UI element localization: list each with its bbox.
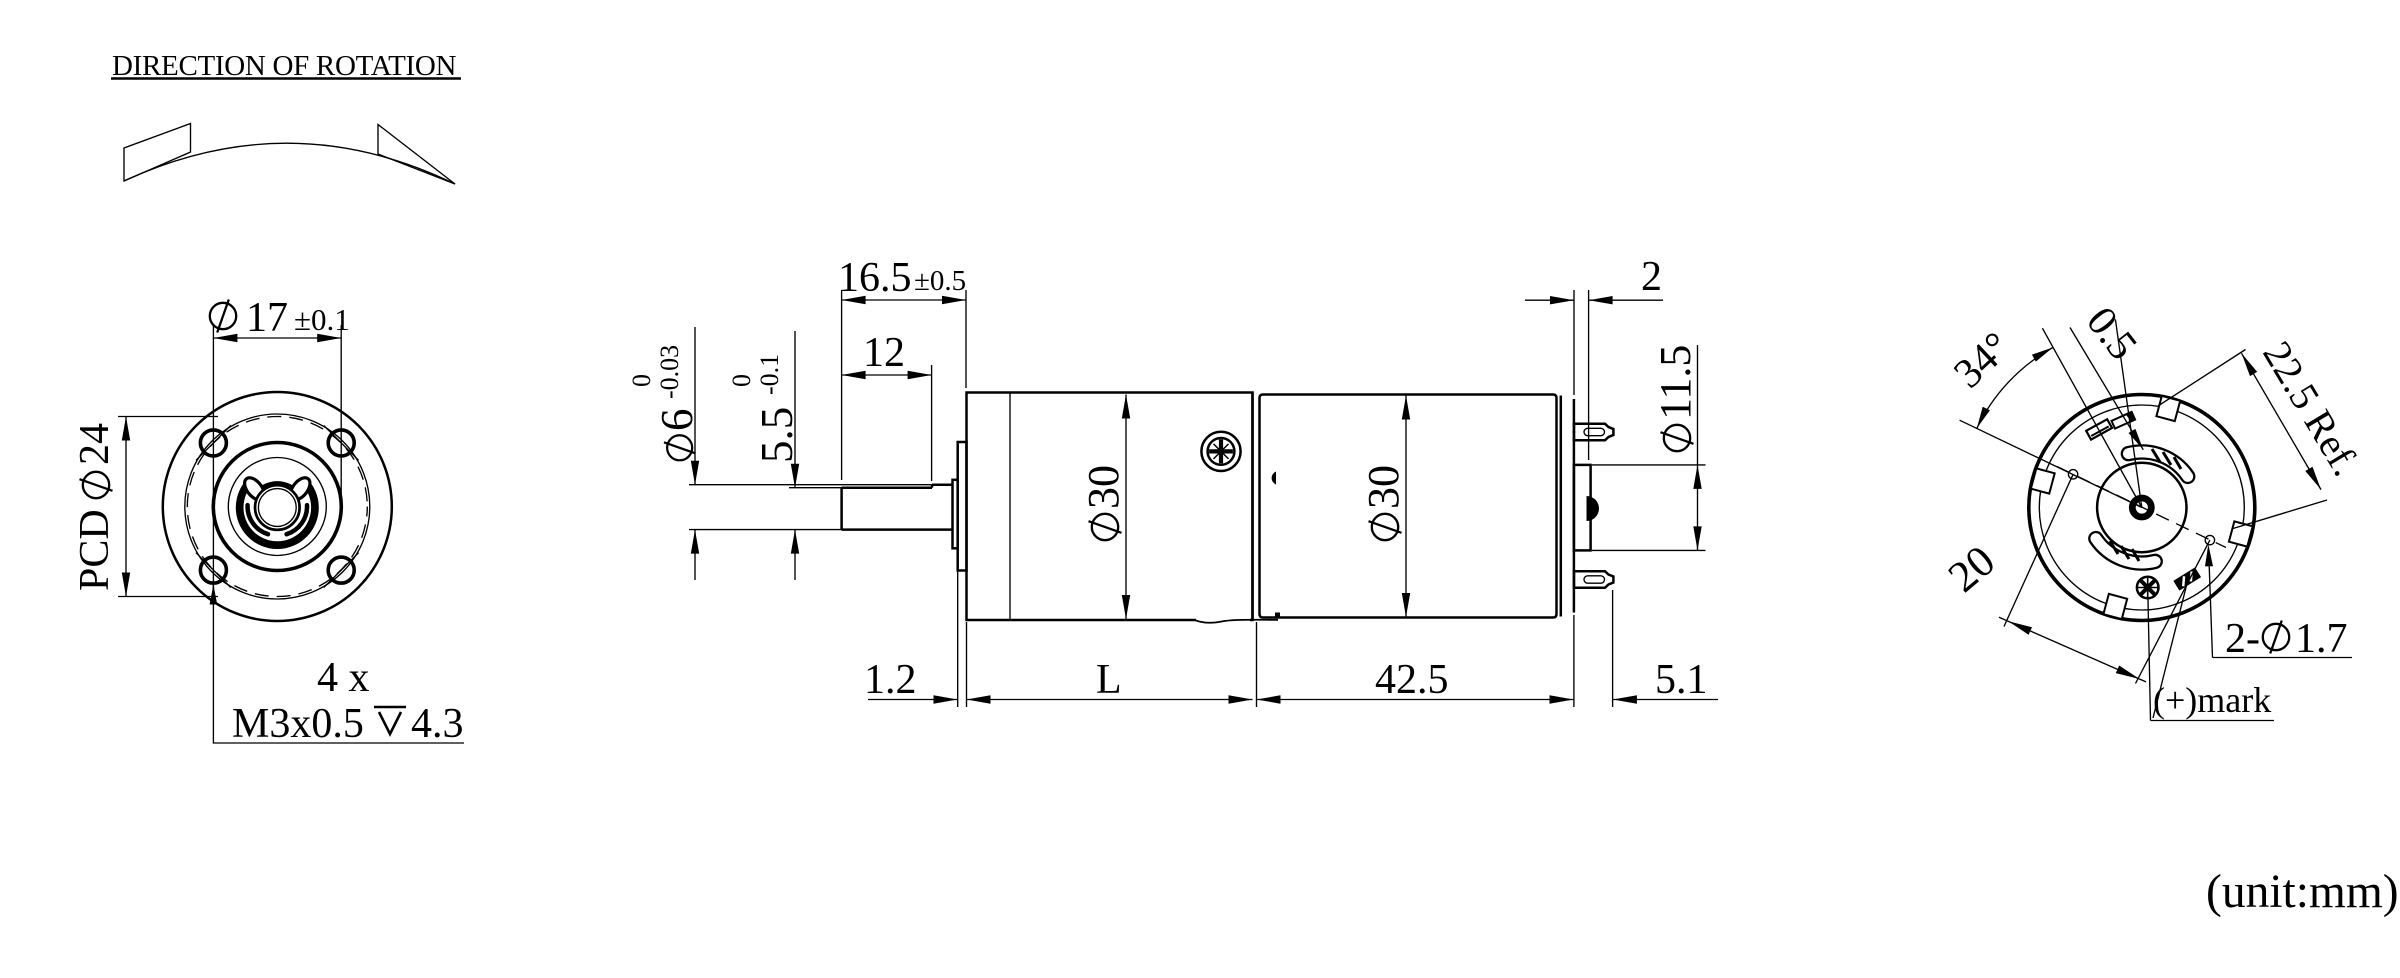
dim L xyxy=(967,699,1253,701)
text 34 xyxy=(1945,324,2019,398)
dim d11.5 xyxy=(1592,464,1706,466)
bolt hole top-right xyxy=(328,430,354,456)
shaft bottom edge xyxy=(689,529,842,531)
carrier ring xyxy=(236,477,319,549)
dim 20 line xyxy=(1999,617,2146,682)
shaft full-dia extension/top edge xyxy=(689,484,932,486)
leader 0.5 xyxy=(2070,328,2143,450)
grease screw outer xyxy=(1201,432,1240,471)
svg-text:16.5: 16.5 xyxy=(838,255,912,301)
svg-text:DIRECTION OF ROTATION: DIRECTION OF ROTATION xyxy=(112,50,457,82)
svg-text:4.3: 4.3 xyxy=(411,701,464,747)
dim 1.2 xyxy=(868,699,958,701)
svg-text:M3x0.5: M3x0.5 xyxy=(232,701,364,747)
dim 34 arc xyxy=(1977,347,2053,428)
text 0.5 xyxy=(2077,299,2146,369)
bolt hole bottom-right xyxy=(328,557,354,583)
svg-text:1.7: 1.7 xyxy=(2295,616,2348,662)
motor inner circle xyxy=(2039,405,2244,610)
svg-text:5.1: 5.1 xyxy=(1655,657,1708,703)
rim tab left xyxy=(2031,468,2055,493)
gearbox bottom break squiggle xyxy=(1196,618,1250,622)
terminal lower xyxy=(1574,571,1613,588)
motor can xyxy=(1260,395,1557,618)
svg-text:L: L xyxy=(1096,657,1122,703)
shaft circle inner xyxy=(258,489,296,527)
hole 1.7 left xyxy=(2068,470,2077,479)
rear shaft end bump xyxy=(1587,496,1600,521)
grease screw inner xyxy=(1208,438,1235,465)
dim 5.1 xyxy=(1613,699,1718,701)
svg-text:PCD: PCD xyxy=(72,509,118,591)
dim PCD text xyxy=(72,423,118,591)
svg-text:-0.03: -0.03 xyxy=(655,345,684,399)
bolt hole top-left xyxy=(200,430,226,456)
brush slot upper-left A xyxy=(2086,419,2112,439)
dim d30 gearbox xyxy=(1125,395,1127,620)
gearbox/motor joint line xyxy=(1251,393,1254,621)
spring arc left xyxy=(248,505,268,534)
svg-text:11.5: 11.5 xyxy=(1651,345,1700,420)
dim 2 xyxy=(1573,290,1575,395)
bottom dims extension lines xyxy=(957,552,959,707)
dim d6 xyxy=(694,327,696,485)
ear right xyxy=(287,474,314,503)
dim 34 rays xyxy=(2115,319,2141,507)
svg-text:(unit:mm): (unit:mm) xyxy=(2206,866,2399,918)
gearbox front ring line xyxy=(1009,393,1011,621)
vent slot upper hatch xyxy=(2152,449,2181,469)
svg-text:30: 30 xyxy=(1079,465,1128,509)
svg-text:2: 2 xyxy=(1641,254,1662,300)
svg-text:2-: 2- xyxy=(2225,616,2260,662)
svg-text:12: 12 xyxy=(863,330,905,376)
flange inner circle xyxy=(185,414,370,599)
svg-text:30: 30 xyxy=(1359,465,1408,509)
vent slot lower hatch xyxy=(2110,541,2139,561)
brush slot upper B xyxy=(2112,412,2136,429)
dim PCD line xyxy=(125,417,127,597)
rim tab bottom xyxy=(2103,594,2127,619)
rear cover plate xyxy=(1573,399,1576,613)
front bearing boss d17 xyxy=(958,442,967,571)
dim PCD extension lines xyxy=(118,416,218,418)
shaft end ring xyxy=(2132,498,2151,517)
svg-text:4 x: 4 x xyxy=(317,655,370,701)
bottom tick on motor xyxy=(1275,613,1280,618)
PCD dashed circle xyxy=(187,417,367,597)
terminal upper xyxy=(1574,424,1613,441)
title DIRECTION OF ROTATION xyxy=(111,50,461,82)
shaft flat top edge xyxy=(842,486,932,489)
dim d17 text xyxy=(210,300,236,333)
dim d30 motor xyxy=(1405,396,1407,618)
shaft cap arc xyxy=(257,483,298,492)
dim d17: extension lines xyxy=(212,325,214,596)
shaft tip end face xyxy=(840,488,843,530)
rear bearing boss d11.5 xyxy=(1574,465,1591,551)
svg-text:42.5: 42.5 xyxy=(1375,657,1449,703)
5.5 flat extension line xyxy=(789,487,842,489)
leader M3 holes xyxy=(213,585,464,744)
dim 16.5 xyxy=(841,290,843,480)
dim 22.5 line xyxy=(2242,353,2322,489)
text 20 xyxy=(1939,536,2004,602)
svg-text:5.5: 5.5 xyxy=(752,407,802,463)
front small boss xyxy=(953,480,958,549)
bearing boss circle xyxy=(2097,463,2186,552)
rotation arrow arc xyxy=(124,143,455,184)
svg-text:(+)mark: (+)mark xyxy=(2153,680,2271,720)
ear left xyxy=(241,474,268,503)
motor outer circle xyxy=(2029,395,2255,621)
hole 1.7 right xyxy=(2205,535,2214,544)
svg-text:-0.1: -0.1 xyxy=(755,354,784,395)
svg-text:17: 17 xyxy=(246,295,288,341)
dim 12 xyxy=(931,365,933,481)
rim tab right xyxy=(2229,521,2253,546)
rotation arrow head xyxy=(378,125,455,185)
center dashed line through holes xyxy=(2057,467,2226,548)
dim 22.5 ext lines xyxy=(2158,350,2246,407)
svg-text:±0.5: ±0.5 xyxy=(914,265,966,297)
svg-text:6: 6 xyxy=(652,409,702,432)
boss circle d17 thick xyxy=(213,443,341,571)
dim 20 ext lines xyxy=(2004,474,2073,626)
rim tab top xyxy=(2156,396,2180,421)
screw with cross xyxy=(2137,577,2159,599)
spring arc right xyxy=(287,505,307,534)
rotation arrow tail xyxy=(124,124,191,182)
text 22.5 Ref xyxy=(2254,333,2369,483)
svg-text:1.2: 1.2 xyxy=(864,657,917,703)
shaft step at flat end xyxy=(931,485,934,488)
inner face circle xyxy=(228,458,326,556)
svg-text:24: 24 xyxy=(72,423,118,465)
dim 42.5 xyxy=(1257,699,1574,701)
svg-text:±0.1: ±0.1 xyxy=(294,302,350,337)
grease screw cross xyxy=(1209,440,1233,464)
svg-text:0: 0 xyxy=(627,374,656,387)
shaft circle outer xyxy=(255,485,300,530)
dim 5.5 xyxy=(794,331,796,488)
motor can rear inner line xyxy=(1560,396,1563,617)
weld nub on motor xyxy=(1272,472,1276,485)
vent slot upper xyxy=(2122,445,2194,482)
bolt hole bottom-left xyxy=(200,557,226,583)
brush slot lower-right C xyxy=(2174,568,2200,589)
vent slot lower xyxy=(2089,532,2161,570)
gearbox body xyxy=(967,393,1253,621)
svg-text:0: 0 xyxy=(727,374,756,387)
dim d17 line xyxy=(213,337,341,339)
flange outer circle xyxy=(163,392,392,621)
